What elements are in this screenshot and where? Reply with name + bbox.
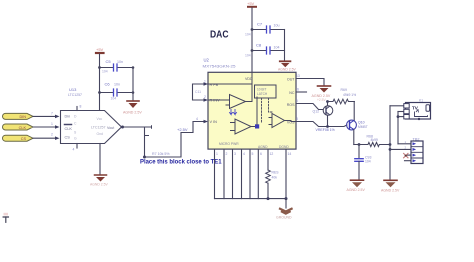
arrows under A1: [230, 110, 233, 115]
svg-text:3: 3: [234, 152, 236, 156]
node TV pad3 junction: [397, 115, 400, 118]
svg-text:VREF08 1%: VREF08 1%: [316, 128, 335, 132]
wire CS to pin: [33, 137, 55, 139]
svg-text:AGND 2.5V: AGND 2.5V: [347, 188, 366, 192]
wire power stem to U2 VDD: [251, 8, 253, 73]
node Q12 emitter junction: [326, 125, 329, 128]
svg-text:LTC1257: LTC1257: [68, 93, 82, 97]
svg-text:R69: R69: [341, 88, 347, 92]
ground GROUND (bottom arrow): [276, 209, 292, 220]
capacitor C5: [102, 59, 123, 74]
svg-text:4: 4: [243, 152, 245, 156]
svg-text:4k99: 4k99: [371, 138, 378, 142]
svg-text:104: 104: [365, 160, 371, 164]
wire Q12 emitter down: [327, 115, 329, 126]
wire cap branch 1: [100, 67, 134, 69]
node rail R68: [389, 143, 392, 146]
svg-text:Gnd: Gnd: [97, 132, 104, 136]
svg-text:2: 2: [405, 145, 407, 149]
svg-text:+2.5V: +2.5V: [317, 98, 327, 102]
wire control to summing: [256, 97, 258, 124]
dashed control lines: [261, 98, 263, 124]
svg-text:C5: C5: [106, 59, 112, 64]
wire caps to AGND: [284, 30, 286, 62]
svg-text:GROUND: GROUND: [276, 215, 292, 219]
node rail row2: [389, 148, 392, 151]
ground AGND (top of U2): [278, 61, 296, 71]
port flag CLK: [3, 124, 34, 130]
svg-text:MMBT: MMBT: [358, 125, 368, 129]
connector TB2: [411, 138, 423, 164]
node bus junction: [267, 197, 270, 200]
svg-text:CLK: CLK: [19, 126, 27, 130]
node output junction: [143, 156, 146, 159]
op-amp A1 (inside U2): [230, 95, 246, 109]
power +5V P2 (top center): [247, 1, 256, 7]
pin stub TB2 row4: [405, 160, 412, 162]
wire to VIN staircase: [145, 122, 204, 158]
IC U2 DAC body: [208, 72, 296, 149]
wire power stem to U13: [99, 54, 101, 111]
node summing (blue square): [255, 124, 259, 128]
svg-text:104: 104: [111, 97, 117, 101]
wire ROS pin to Q12 base: [296, 104, 323, 110]
svg-text:Din: Din: [65, 114, 71, 118]
node cap branch ends: [132, 66, 135, 69]
svg-text:NC: NC: [289, 91, 295, 95]
control logic box: [255, 85, 277, 98]
svg-text:Q10: Q10: [358, 121, 365, 125]
resistor R11 (vertical): [266, 170, 280, 183]
svg-text:6: 6: [297, 88, 299, 92]
svg-text:2: 2: [226, 152, 228, 156]
wire rail vertical: [389, 106, 391, 180]
node Q12 collector: [326, 100, 329, 103]
svg-text:LATCH: LATCH: [257, 92, 268, 96]
svg-text:MICRO PWR: MICRO PWR: [219, 142, 239, 146]
wire caps to ground: [132, 68, 134, 101]
op-amp A3 (inside U2): [272, 114, 285, 128]
node junction c5: [98, 66, 101, 69]
svg-text:1: 1: [405, 140, 407, 144]
wire TV pad1: [390, 105, 404, 107]
power +5V P1 (top left): [96, 47, 104, 53]
wire pin LDAC upper: [267, 149, 269, 170]
svg-text:RES: RES: [272, 171, 280, 175]
ground (op-amp V-): [90, 175, 108, 187]
svg-text:1: 1: [204, 80, 206, 84]
svg-text:AGND 2.5V: AGND 2.5V: [90, 183, 108, 187]
wire U2 OUT pin to ground: [296, 79, 324, 86]
svg-text:Place this block close to TE1: Place this block close to TE1: [140, 158, 222, 165]
wire C7 branch: [252, 29, 285, 31]
svg-text:C7: C7: [257, 22, 263, 27]
svg-text:12: 12: [270, 152, 274, 156]
wire RFB loop: [193, 84, 209, 100]
wire Q10 emitter down: [353, 130, 355, 145]
designator U13: [68, 87, 82, 97]
svg-text:R7 10k 5%: R7 10k 5%: [152, 152, 170, 156]
svg-text:+5V: +5V: [96, 47, 104, 52]
wire TV pad3: [398, 116, 404, 118]
svg-text:DAC: DAC: [210, 30, 229, 41]
svg-text:C8: C8: [256, 43, 262, 48]
svg-text:Vout: Vout: [107, 126, 114, 130]
wire U13 output: [122, 127, 145, 157]
ground (bottom right): [381, 180, 400, 192]
svg-text:10n: 10n: [117, 60, 123, 64]
svg-text:AGND 2.5V: AGND 2.5V: [278, 68, 296, 72]
svg-text:5: 5: [252, 152, 254, 156]
svg-text:V IN: V IN: [210, 120, 218, 124]
svg-text:7: 7: [51, 112, 53, 116]
ground AGND (right of U2): [312, 86, 331, 102]
svg-text:ROS: ROS: [287, 103, 295, 107]
capacitor C6: [105, 82, 121, 101]
svg-text:G: G: [74, 137, 77, 141]
svg-text:13: 13: [296, 74, 300, 78]
ground (under Q10): [347, 180, 366, 192]
node junction C8: [251, 49, 254, 52]
port flag CS: [3, 135, 34, 141]
svg-text:MX7543GKN-25: MX7543GKN-25: [203, 65, 236, 69]
wire to TB row1: [398, 143, 411, 145]
svg-text:6: 6: [260, 152, 262, 156]
node bus right junction: [285, 197, 288, 200]
svg-text:10u: 10u: [274, 24, 280, 28]
svg-text:CS: CS: [21, 137, 27, 141]
svg-text:DIN: DIN: [19, 115, 26, 119]
svg-text:5: 5: [296, 99, 298, 103]
designator U2: [203, 58, 236, 69]
svg-text:U13: U13: [69, 87, 77, 92]
wire TV pad2 vertical: [397, 112, 399, 144]
wire U13 V- to ground: [99, 144, 101, 175]
wire ground bus: [215, 198, 287, 200]
capacitor C93: [355, 156, 372, 164]
capacitor C8: [245, 43, 280, 58]
svg-text:4: 4: [196, 117, 198, 121]
wire rail to TB row2: [390, 148, 411, 150]
node Q10 emitter junction: [358, 143, 361, 146]
wire DIN to pin: [33, 115, 55, 117]
power stub T (bottom left): [3, 213, 8, 223]
pin stub top U13: [76, 107, 78, 111]
svg-text:OUT: OUT: [287, 78, 295, 82]
node junction c6: [98, 91, 101, 94]
node U13 output: [121, 126, 124, 129]
svg-text:+2.5V: +2.5V: [177, 127, 188, 132]
wire Q12 collector up: [327, 102, 329, 106]
svg-text:K1: K1: [419, 99, 423, 103]
svg-text:4: 4: [73, 148, 75, 152]
wire C93 top: [358, 145, 360, 159]
resistor R68 (horizontal): [354, 135, 390, 147]
svg-text:2: 2: [51, 132, 53, 136]
wire VDD stub internal: [251, 72, 253, 84]
svg-text:U2: U2: [204, 58, 210, 63]
wire C93 to ground: [358, 161, 360, 180]
svg-text:C6: C6: [105, 82, 111, 87]
svg-text:Q12: Q12: [313, 110, 320, 114]
pin stub NC: [296, 91, 307, 93]
wire bus to GROUND: [285, 199, 287, 208]
svg-text:49k9 1%: 49k9 1%: [343, 93, 356, 97]
svg-text:CLK: CLK: [65, 127, 73, 131]
wire RFB internal: [208, 84, 252, 102]
svg-text:104: 104: [102, 70, 108, 74]
svg-text:CS: CS: [65, 136, 71, 140]
U2 bottom pin wires to bus: [215, 149, 287, 199]
wire resistor to bus: [267, 183, 269, 198]
svg-text:3: 3: [296, 117, 298, 121]
wire C8 branch: [252, 50, 285, 52]
op-amp U13 DAC body: [61, 111, 122, 144]
wire VOS pin to Q10 base: [296, 122, 347, 127]
svg-text:104: 104: [245, 33, 251, 37]
node junction C7: [251, 28, 254, 31]
no-connect X row3: [404, 153, 408, 157]
svg-text:104: 104: [245, 54, 251, 58]
svg-text:DGND: DGND: [279, 145, 289, 149]
op-amp A2 (inside U2): [235, 119, 251, 134]
svg-text:40k: 40k: [272, 176, 278, 180]
pin numbers U2 bottom: [216, 152, 291, 156]
svg-text:Vcc: Vcc: [97, 117, 103, 121]
svg-text:LTC1257: LTC1257: [91, 125, 106, 129]
wire cap branch 2: [100, 92, 134, 94]
U13 pin texts: [65, 114, 115, 140]
svg-text:C11: C11: [195, 90, 201, 94]
wire RINV internal: [208, 99, 230, 101]
svg-text:AGND 2.5V: AGND 2.5V: [123, 111, 142, 115]
svg-text:AGND: AGND: [258, 145, 268, 149]
port flag DIN: [3, 113, 34, 119]
svg-text:2: 2: [204, 95, 206, 99]
wire R69 to Q10 collector: [353, 102, 355, 121]
svg-text:14: 14: [288, 152, 292, 156]
U2 pin name texts: [210, 77, 296, 149]
svg-text:10 BIT: 10 BIT: [257, 88, 266, 92]
pin stub TB2 row3: [405, 154, 411, 156]
transistor Q10: [347, 120, 368, 130]
svg-text:8: 8: [80, 105, 82, 109]
svg-text:1: 1: [51, 122, 53, 126]
svg-text:AGND 2.5V: AGND 2.5V: [381, 189, 400, 193]
svg-text:104: 104: [274, 46, 280, 50]
resistor R69 (horizontal): [328, 88, 357, 104]
svg-text:10n: 10n: [114, 83, 120, 87]
transistor Q12: [313, 106, 333, 116]
svg-text:1: 1: [216, 152, 218, 156]
relay K1 TV box: [404, 99, 431, 121]
capacitor C7: [245, 22, 280, 37]
svg-text:+5V: +5V: [247, 1, 255, 6]
wire CLK to pin: [33, 126, 55, 128]
ground AGND (under C5 C6): [123, 101, 142, 115]
pin stub bottom U13: [76, 144, 78, 149]
